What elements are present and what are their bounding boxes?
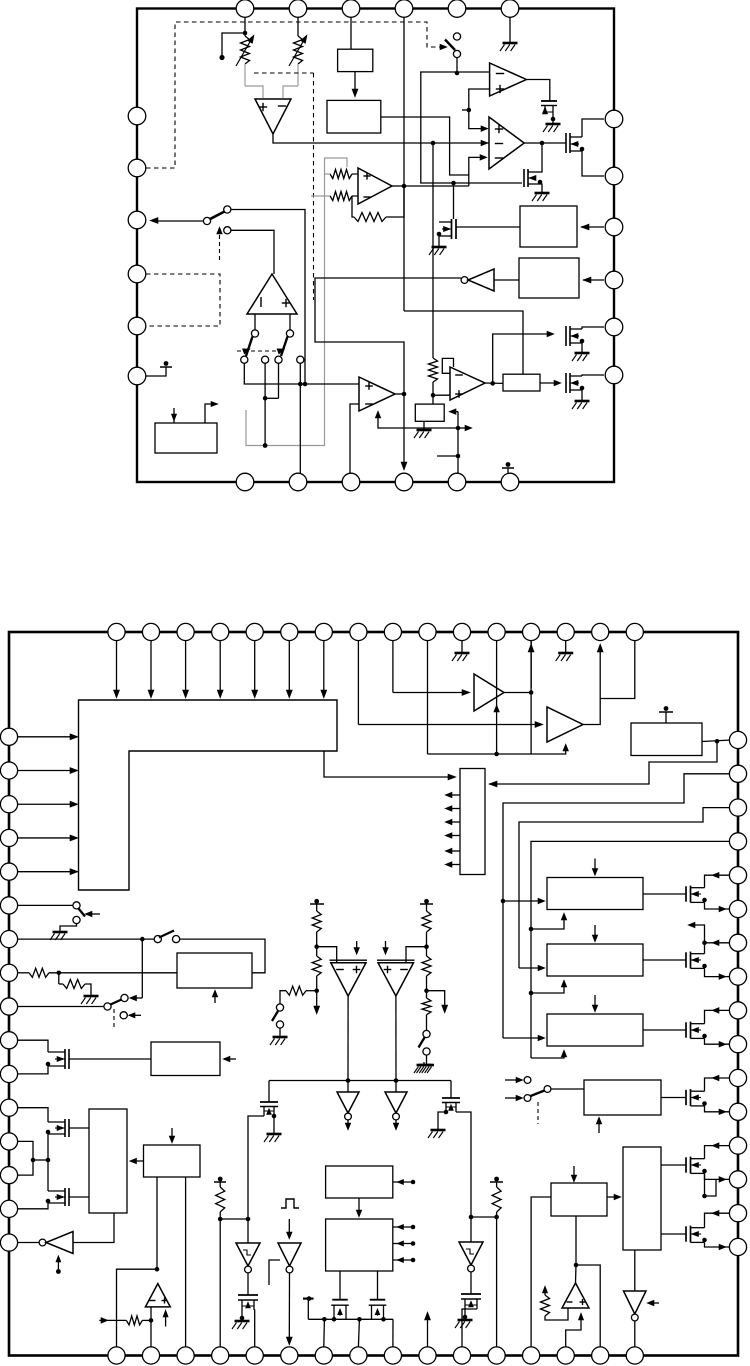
wire to U8 plus input — [433, 394, 450, 396]
wire rail to pin B9 — [392, 1319, 394, 1347]
wire Q14 drain to upper pin — [705, 1146, 732, 1159]
IC2 pins — [108, 623, 125, 640]
U15 plus input arrow — [356, 941, 358, 951]
wire U3 output to Q1 — [526, 80, 549, 102]
wire U8 out to G1 — [485, 382, 503, 384]
feeder to DRV1 — [503, 900, 543, 902]
block G5 — [327, 100, 381, 133]
resistor R4 chain from U1 out — [432, 143, 434, 358]
wire Q22 gate to CNT — [69, 1196, 89, 1198]
decoder output arrows — [447, 794, 460, 796]
U12 left bracket — [269, 1260, 280, 1285]
wire Q6 source gnd — [581, 343, 583, 350]
wire DRV2 to Q11 — [643, 959, 686, 961]
Q19 drain chain down — [456, 1112, 471, 1242]
wire pin L14 to Q22 — [18, 1203, 48, 1209]
op-amp U1 (diff amp, points down) — [244, 64, 246, 86]
link wire between Q14/Q15 pins — [702, 1194, 707, 1199]
resistor R3 feedback — [386, 186, 404, 217]
wire Q21 gate to CNT — [69, 1127, 89, 1129]
switch SW3 contacts — [254, 314, 256, 330]
wire Q6 drain to pin R5 — [582, 327, 604, 329]
PWM-A right stub — [393, 1181, 413, 1183]
PWM-B right stub — [393, 1226, 413, 1228]
U20 plus leg arrow — [165, 1312, 167, 1327]
op-amp U10 (points up) — [562, 1283, 589, 1308]
transistor Q10 — [685, 886, 687, 901]
switch SW6 — [423, 1030, 430, 1037]
DRV1 top arrow — [594, 859, 596, 874]
switch SW8 at pin L5 — [18, 904, 73, 906]
Q18 drain chain down — [248, 1116, 264, 1243]
wire Q21 source rail — [47, 1134, 49, 1191]
pulse symbol — [281, 1199, 299, 1208]
transistor Q13 — [685, 1090, 687, 1105]
wire Q5 source gnd — [438, 236, 440, 244]
bus wire from pin R2 — [503, 774, 731, 1038]
transistor Q16 — [339, 1271, 341, 1300]
resistor R24 — [312, 956, 321, 976]
wire CTL to Q14 — [661, 1164, 686, 1166]
transistor Q3 — [523, 169, 525, 187]
MOD top arrow — [573, 1166, 575, 1180]
Q18 source ground — [273, 1116, 275, 1131]
resistor R30 — [126, 1316, 142, 1325]
bracket pins L12-L13 — [18, 1141, 33, 1175]
wire DRV3 to Q12 — [643, 1029, 686, 1031]
transistor Q17 — [377, 1271, 379, 1300]
wire pin L9 to Q20 — [18, 1040, 48, 1052]
block G6 — [520, 206, 577, 247]
DRV2 top arrow — [594, 925, 596, 940]
L-block (DAC ladder) — [79, 700, 338, 890]
feeder to DRV3 — [503, 1037, 543, 1039]
capacitor-FET C1 — [247, 1273, 249, 1295]
wire SW2 B — [231, 230, 274, 274]
resistor R26 — [422, 911, 431, 932]
wire MOD left to pin B13 — [531, 1197, 551, 1347]
gray feedback net — [246, 158, 347, 446]
wire REG to Q13 — [661, 1097, 686, 1099]
wire Q13 drain to upper pin — [705, 1078, 732, 1091]
transistor Q4 — [565, 373, 567, 393]
resistor R1 (gray net) — [330, 170, 352, 179]
wire Q2 drain to pin R1 — [582, 119, 604, 137]
U8 feedback hook — [442, 358, 453, 373]
wire pin3 to G4 — [350, 17, 352, 49]
wire OSC net to decoder right input — [489, 741, 717, 784]
wire U4 output node — [524, 142, 540, 144]
wire MOD to CTL — [607, 1196, 619, 1198]
wire R23 tap to U15 — [317, 947, 337, 963]
DRV3 top arrow — [594, 995, 596, 1010]
right input amp chain: supply — [424, 899, 429, 904]
switch SW4 at REG input — [505, 1079, 521, 1081]
block OSC — [631, 723, 702, 756]
arrow up from pin B10 — [427, 1315, 429, 1347]
block CNT (left tall) — [89, 1109, 127, 1213]
inverter U12 — [278, 1243, 301, 1266]
supply stub left of Q16 — [307, 1299, 309, 1320]
block REG — [584, 1080, 661, 1115]
wire to bottom pin 2 — [299, 384, 301, 473]
wire U4 node to Q3 drain — [540, 143, 542, 172]
op-amp U5 (points up) — [247, 274, 297, 314]
wire U4 out to Q2 gate — [542, 142, 566, 144]
resistor R23 — [312, 911, 321, 932]
IC2 outer border — [9, 632, 738, 1356]
U20 feedback to pin B1 — [117, 1269, 158, 1347]
DET right arrow — [224, 1058, 236, 1060]
wire U6 output node — [395, 393, 404, 395]
resistor R29 to ground — [58, 973, 60, 984]
wire rail to pin B8 — [358, 1319, 359, 1347]
buffer A2 — [357, 641, 359, 725]
wire Q5 drain up — [453, 183, 455, 219]
wire U15 out — [347, 996, 349, 1081]
Q16/Q17 source rail — [308, 1318, 393, 1320]
transistor Q2 — [565, 133, 567, 153]
resistor R21 — [219, 1182, 221, 1187]
left level-shift chain: transistor Q18 — [268, 1081, 270, 1103]
feeder DRV3 bottom — [531, 1053, 564, 1058]
feeder to DRV2 — [519, 967, 543, 969]
U6 feedback arrow — [378, 414, 458, 428]
block DIV — [144, 1145, 201, 1177]
transistor Q1 (cap-style FET) — [541, 100, 557, 102]
wire pin T13 to A1 out — [530, 641, 532, 688]
block G4 (top middle) — [338, 49, 373, 71]
transistor Q6 gnd row — [565, 326, 567, 346]
C1 ground — [241, 1318, 243, 1321]
net to bottom pin 5 — [457, 412, 459, 473]
wire L-block to decoder — [324, 751, 452, 777]
resistor R20 — [544, 1288, 546, 1295]
wire U6 out up to inverter — [315, 278, 461, 394]
U16 plus input arrow — [385, 941, 387, 951]
ground under pin T11 — [461, 641, 463, 650]
arrow G4 to G5 — [354, 72, 356, 93]
transistor Q12 — [685, 1022, 687, 1037]
wire tap down to SW7 — [141, 939, 143, 998]
arrow into inverter U12 — [288, 1219, 290, 1236]
wire Q4 drain to pin R6 — [582, 375, 604, 376]
wire Q5 gate to G6 — [456, 226, 520, 228]
op-amp U8 — [450, 367, 485, 400]
block G3 (bottom left) — [155, 423, 217, 453]
U20 minus leg — [150, 1307, 152, 1347]
wire Q14 source to lower pin — [705, 1173, 732, 1179]
wire CTL to Q15 — [661, 1233, 686, 1235]
switch SW5 — [276, 1004, 283, 1011]
inverter U18 — [395, 1081, 397, 1093]
inverter U11 — [634, 1250, 636, 1291]
wire Q10 drain to upper pin — [705, 875, 732, 888]
wire U12 out to pin B6 — [288, 1273, 290, 1342]
op-amp U4 (3-input comparator) — [489, 117, 524, 169]
PWM-B right stub — [393, 1243, 413, 1245]
wire Q15 drain to upper pin — [705, 1213, 732, 1228]
op-amp U15 — [330, 959, 368, 961]
wire U6 minus to bottom pin 3 — [350, 404, 359, 473]
block MOD — [551, 1183, 607, 1216]
op-amp U6 — [359, 377, 395, 411]
wire U16 out — [395, 996, 397, 1081]
wire U3 minus input net — [421, 72, 522, 183]
pin L6 switch net — [18, 938, 154, 940]
bus wire from pin R3 — [519, 808, 731, 968]
DIV legs to pins — [156, 1177, 158, 1269]
wire SW2 A — [231, 210, 305, 385]
resistor R28 — [422, 998, 431, 1015]
U19 stub — [57, 1258, 59, 1270]
wire C2 to pin B11 — [462, 1309, 477, 1347]
feeder DRV2 bottom — [531, 983, 564, 993]
wire U6 out to bottom pin 4 — [403, 394, 405, 466]
resistor R27 — [422, 956, 431, 976]
wire into G7 — [450, 411, 458, 413]
wire switch to ADJ right — [180, 939, 265, 973]
left input amp chain: supply — [314, 899, 319, 904]
IC1 outer border — [137, 9, 614, 483]
buffer A1 — [392, 641, 394, 693]
left block ADJ — [177, 953, 252, 988]
transistor Q14 — [685, 1157, 687, 1172]
right level-shift chain: transistor Q19 — [450, 1081, 452, 1099]
block PWM-A — [326, 1166, 393, 1198]
inverter U19 at pin L16 — [18, 1242, 39, 1244]
block DRV2 — [547, 944, 643, 976]
wire Q3 source to ground — [540, 184, 542, 190]
wire U19 input from CNT — [73, 1213, 114, 1243]
PWM-B right stub — [393, 1259, 413, 1261]
variable resistor VR2 — [297, 17, 299, 36]
gray junction dot — [263, 443, 268, 448]
Q11 drain branch arrow — [702, 941, 707, 946]
resistor R22 — [496, 1182, 498, 1187]
transistor Q5 — [451, 219, 453, 239]
feeder DRV1 bottom — [531, 916, 564, 929]
wire pin R4 to G2 — [583, 279, 604, 281]
bus wire from pin R4 — [531, 841, 731, 1058]
switch SW1 (top right) — [453, 33, 460, 40]
wire OSC out to pin R1 — [702, 740, 731, 742]
op-amp U3 — [490, 63, 527, 96]
ground under pin 6 top — [509, 17, 511, 40]
resistor R2 (gray net) — [330, 192, 352, 201]
wire Q12 drain to upper pin — [705, 1010, 732, 1023]
ground symbol mid — [423, 1062, 425, 1065]
wire G1 to Q4 gate — [540, 382, 558, 384]
decoder block — [460, 769, 485, 875]
wire R21 to Q18 chain — [220, 1218, 248, 1220]
wire R22 to Q19 chain — [471, 1216, 497, 1218]
OSC supply stub — [665, 712, 667, 723]
wire block G5 to U4 third input — [381, 117, 469, 175]
bus wire y754 — [428, 746, 566, 754]
wire pin T16 down — [600, 641, 635, 699]
variable resistor VR1 — [244, 17, 246, 36]
wire pin4 net to block G1 — [404, 311, 523, 375]
resistor R25 to switch — [306, 990, 317, 992]
transistor Q21 — [64, 1119, 66, 1137]
wire pin L11 to Q21 — [18, 1108, 48, 1122]
wire C1 to pin B5 — [253, 1310, 256, 1347]
block DRV3 — [547, 1014, 643, 1046]
inverter U7 — [461, 277, 468, 284]
G3 stub arrows — [173, 408, 175, 423]
wire Q20 gate to DET — [69, 1058, 151, 1060]
net from top pin 4 — [403, 18, 405, 311]
transistor Q22 — [64, 1188, 66, 1206]
capacitor-FET C2 — [470, 1272, 472, 1294]
wire Q2 source to pin R2 — [582, 151, 604, 176]
op-amp U20 (points up) — [145, 1284, 170, 1307]
wire A1 out — [504, 693, 531, 755]
wire Q4 source gnd — [581, 390, 583, 398]
block G1 — [503, 374, 540, 391]
schmitt inverter U13 — [236, 1243, 260, 1266]
wire Q10 source to lower pin — [705, 902, 732, 909]
Q19 ground — [438, 1112, 446, 1127]
block PWM-B — [326, 1219, 393, 1271]
dashed link pins L4-L5 — [146, 274, 220, 326]
op-amp rail y1080 — [269, 1080, 451, 1082]
C2 ground — [464, 1317, 466, 1320]
switch SW7 — [121, 994, 128, 1001]
wire MOD bottom to comparator — [575, 1216, 577, 1265]
wire Q11 source to lower pin — [705, 968, 732, 976]
dashed control net from pin 4 left — [146, 22, 443, 168]
wire pin T12 down — [496, 641, 498, 754]
wire pin T10 bus — [427, 641, 429, 754]
block DET — [151, 1042, 220, 1076]
wire U3 plus / U4 plus link — [469, 89, 490, 129]
pin L7 resistor input — [18, 972, 29, 974]
wire R26 tap to U16 — [406, 947, 427, 963]
REG bottom arrow — [598, 1120, 600, 1133]
schmitt inverter U14 — [459, 1242, 483, 1265]
wire pin R3 to G6 — [581, 226, 604, 228]
block G2 — [519, 258, 579, 298]
DIV output arrow to CNT — [131, 1160, 144, 1162]
L-block input arrows from top pins — [116, 641, 118, 694]
wire U2 out to U4 third input — [404, 185, 469, 187]
ground under pin T14 — [565, 641, 567, 650]
IC1 pins — [236, 0, 254, 17]
wire U1 output to U4 input — [273, 134, 489, 143]
wire contacts to U6 plus — [244, 363, 359, 384]
op-amp U16 — [377, 959, 415, 961]
U10 plus leg arrow — [566, 1316, 581, 1347]
branch arrow right — [427, 991, 445, 1009]
transistor Q15 — [685, 1226, 687, 1241]
transistor Q11 — [685, 952, 687, 967]
wire Q12 source to lower pin — [705, 1038, 732, 1044]
wire U2 out to pin-4 net — [392, 185, 404, 187]
wire Q11 drain to upper pin — [705, 943, 732, 954]
wire Q15 source to lower pin — [705, 1242, 732, 1247]
block DRV1 — [547, 878, 643, 910]
inverter U17 — [347, 1081, 349, 1093]
wire pin L10 to Q20 — [18, 1066, 48, 1074]
wire rail to pin B7 — [323, 1319, 326, 1347]
wire Q13 source to lower pin — [705, 1106, 732, 1112]
wire DRV1 to Q10 — [643, 893, 686, 895]
pin L6 stub — [146, 367, 166, 376]
DIV top arrow — [171, 1128, 173, 1141]
block CTL (tall right) — [623, 1147, 661, 1250]
ADJ bottom arrow — [214, 992, 216, 1003]
transistor Q20 — [64, 1049, 66, 1069]
wire contact pair down — [264, 363, 266, 398]
wire A2 out to pin T15 — [583, 645, 600, 725]
G7 ground — [423, 421, 425, 427]
PWM-A to PWM-B arrow — [358, 1198, 360, 1215]
L-block input arrows from left pins — [18, 736, 74, 738]
switch SW2 (left middle) — [152, 220, 207, 222]
wire U8 out to Q4 gate — [493, 334, 550, 383]
op-amp U2 — [358, 168, 392, 204]
block G7 — [432, 395, 434, 404]
supply stub above bottom pin 6 — [507, 468, 509, 473]
